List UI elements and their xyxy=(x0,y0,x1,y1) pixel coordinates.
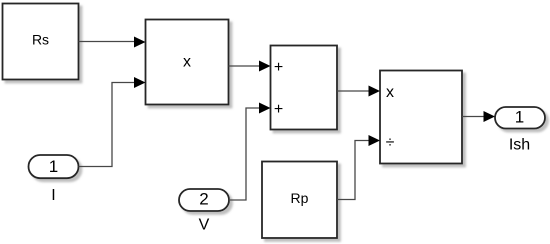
svg-text:+: + xyxy=(274,59,283,76)
arrowhead divide input 2 xyxy=(369,135,381,146)
arrowhead divide input 1 xyxy=(369,86,381,97)
divide block xyxy=(380,71,462,164)
svg-text:÷: ÷ xyxy=(386,134,395,151)
outport 1 label Ish xyxy=(509,137,530,154)
wire product output to sum input 1 xyxy=(229,65,260,67)
inport 1 label I xyxy=(51,187,55,204)
sum block xyxy=(271,46,338,130)
inport 2 oval xyxy=(179,189,229,211)
arrowhead outport 1 xyxy=(484,111,496,122)
svg-text:+: + xyxy=(274,101,283,118)
arrowhead product input 2 xyxy=(134,77,146,88)
wire sum output to divide input 1 xyxy=(337,90,369,92)
inport 2 label V xyxy=(199,217,210,234)
wire divide output to outport 1 xyxy=(462,116,484,118)
inport 1 oval xyxy=(29,155,79,178)
arrowhead sum input 2 xyxy=(259,103,271,114)
svg-text:Ish: Ish xyxy=(509,137,530,154)
arrowhead sum input 1 xyxy=(259,61,271,72)
wire Rs to product input 1 xyxy=(79,41,135,43)
constant block Rp xyxy=(262,162,337,239)
constant block Rs xyxy=(3,4,79,80)
svg-text:x: x xyxy=(183,54,191,71)
svg-text:1: 1 xyxy=(49,157,58,176)
svg-text:1: 1 xyxy=(515,108,524,127)
svg-text:I: I xyxy=(51,187,55,204)
svg-text:2: 2 xyxy=(199,190,208,209)
wire inport 2 to sum input 2 xyxy=(229,108,260,200)
outport 1 oval xyxy=(495,107,545,129)
svg-text:Rp: Rp xyxy=(291,190,309,206)
arrowhead product input 1 xyxy=(134,37,146,48)
product block X xyxy=(146,20,229,105)
wire inport 1 to product input 2 xyxy=(79,83,135,167)
svg-text:V: V xyxy=(199,217,210,234)
svg-text:x: x xyxy=(386,84,394,101)
svg-text:Rs: Rs xyxy=(32,31,49,47)
wire Rp to divide input 2 xyxy=(337,141,369,200)
